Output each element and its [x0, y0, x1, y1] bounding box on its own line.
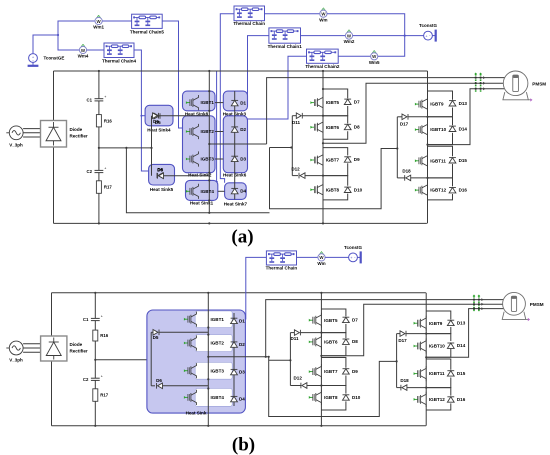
transistor IGBT3 b: [184, 363, 197, 378]
diode D17 b: [397, 333, 400, 335]
svg-text:Thermal Chain4: Thermal Chain4: [102, 59, 137, 64]
svg-text:IGBT3: IGBT3: [201, 157, 215, 162]
node thermal junction A: [57, 34, 59, 36]
svg-text:D16: D16: [457, 397, 466, 402]
wire leg3 rail b: [425, 293, 427, 426]
svg-text:IGBT5: IGBT5: [326, 100, 340, 105]
diode D3: [231, 156, 238, 161]
diode D3 b: [231, 369, 238, 374]
wire 3-phase source to rectifier: [23, 128, 40, 130]
svg-text:IGBT1: IGBT1: [211, 317, 225, 322]
svg-text:Rectifier: Rectifier: [70, 134, 88, 139]
svg-text:D16: D16: [459, 188, 468, 193]
diode D7: [344, 99, 351, 104]
transistor IGBT12: [415, 183, 428, 198]
resistor R16: [96, 115, 112, 127]
node leg3 clamp neutral tap: [396, 147, 398, 149]
green phase markers figure b: [473, 295, 484, 312]
svg-text:D13: D13: [457, 320, 466, 325]
wire D9 loop b: [321, 358, 346, 368]
transistor IGBT7: [310, 152, 323, 167]
svg-text:R17: R17: [104, 185, 112, 190]
wire R16 to mid node: [98, 127, 100, 148]
svg-text:IGBT1: IGBT1: [201, 100, 215, 105]
wire C2 to R17: [98, 173, 100, 181]
diode D14 b: [447, 343, 454, 348]
diode D6 b: [151, 385, 155, 387]
wire leg1 rail b: [207, 293, 209, 426]
svg-text:IGBT10: IGBT10: [429, 344, 445, 349]
wire leg2 output to phase: [323, 83, 505, 143]
wire leg2 clamp chain: [291, 116, 293, 176]
igbt box IGBT3 b: [195, 362, 232, 379]
svg-text:D5: D5: [153, 335, 159, 340]
svg-text:C1: C1: [83, 317, 89, 322]
node leg3 nodes b: [425, 333, 427, 335]
transistor IGBT11: [415, 153, 428, 168]
node thermal port D5: [140, 115, 142, 117]
wire leg2 rail: [322, 71, 324, 223]
svg-text:IGBT2: IGBT2: [211, 341, 225, 346]
svg-text:Thermal Chain: Thermal Chain: [266, 265, 298, 270]
svg-text:Wm2: Wm2: [344, 39, 355, 44]
igbt box IGBT2 b: [195, 335, 232, 352]
wire Thermal Chain left to heat sinks: [220, 14, 234, 183]
wire R17 to bottom b: [94, 401, 96, 426]
wire rectifier to DC- bus: [53, 147, 55, 223]
svg-text:Heat Sink2: Heat Sink2: [188, 173, 212, 178]
wire C1 to R16 b: [94, 321, 96, 331]
svg-text:IGBT9: IGBT9: [430, 102, 444, 107]
svg-text:D17: D17: [398, 338, 407, 343]
transistor IGBT9: [415, 97, 428, 112]
wire D14 loop: [428, 117, 453, 125]
wire D10 loop b: [321, 386, 346, 394]
svg-text:TconstG: TconstG: [419, 23, 437, 28]
transistor IGBT6: [310, 120, 323, 135]
resistor R17 b: [93, 389, 109, 402]
thermal chain block Thermal Chain b: [266, 251, 296, 265]
svg-text:IGBT8: IGBT8: [324, 395, 338, 400]
wire D8 loop: [323, 116, 348, 124]
diode D15 b: [447, 371, 454, 376]
svg-text:Wm4: Wm4: [78, 54, 89, 59]
heat sink block Heat Sink8 with IGBT1: [183, 91, 216, 111]
svg-text:IGBT12: IGBT12: [429, 397, 445, 402]
svg-text:C1: C1: [87, 97, 93, 102]
wire D15 loop: [428, 146, 453, 156]
wire D6 lead to leg1: [164, 175, 210, 177]
wire D14 loop b: [426, 334, 451, 341]
thermal chain block Thermal Chain1: [269, 28, 301, 43]
svg-text:D12: D12: [294, 375, 303, 380]
wire neutral detour to leg3 clamp b: [269, 357, 397, 417]
wire C1 to R16: [98, 101, 100, 115]
wire D5 lead to leg1: [159, 115, 210, 117]
diode D9: [344, 157, 351, 162]
diode D8: [344, 124, 351, 129]
wire Thermal Chain b to Heat Sink: [246, 257, 267, 319]
svg-text:IGBT2: IGBT2: [201, 129, 215, 134]
node DC midpoint: [98, 147, 100, 149]
svg-text:D4: D4: [240, 189, 246, 194]
thermal chain block Thermal Chain: [234, 6, 265, 21]
svg-text:D6: D6: [156, 378, 162, 383]
diode D12 b: [290, 385, 301, 387]
node leg1 rail box ports b: [207, 326, 209, 328]
heat sink block Heat Sink2 with IGBT2 IGBT3: [183, 116, 216, 173]
node bottom bus junctions: [98, 222, 100, 224]
diode D11 b: [290, 332, 294, 334]
diode D7 b: [343, 317, 350, 322]
capacitor C2: [87, 167, 107, 174]
svg-text:(a): (a): [231, 227, 253, 248]
svg-text:Wm: Wm: [319, 17, 327, 22]
wire leg1 output line: [209, 143, 266, 145]
wire Wm2 to TconstG: [353, 35, 424, 37]
wire neutral detour to leg3 clamp: [270, 148, 398, 209]
diode D9 b: [343, 369, 350, 374]
igbt box IGBT4 b: [195, 389, 232, 407]
svg-text:Diode: Diode: [70, 342, 83, 347]
svg-text:Rectifier: Rectifier: [70, 349, 88, 354]
wire Thermal Chain1 to Wm2: [301, 35, 346, 37]
wire leg1 phase to motor b: [266, 300, 504, 357]
wire Thermal Chain to Wm: [265, 13, 320, 15]
svg-text:D7: D7: [354, 99, 360, 104]
svg-text:+: +: [104, 95, 106, 99]
transistor IGBT7 b: [309, 364, 322, 379]
wire left bus lower b: [51, 361, 53, 426]
svg-text:D14: D14: [457, 343, 466, 348]
wire inner bottom connector: [126, 148, 269, 213]
svg-text:Wm1: Wm1: [93, 25, 104, 30]
diode D18 b: [397, 387, 401, 389]
transistor IGBT8: [310, 182, 323, 197]
svg-text:D14: D14: [459, 126, 468, 131]
wire leg1 rail: [208, 71, 210, 213]
node thermal bus junction: [404, 35, 406, 37]
svg-text:Heat Sink1: Heat Sink1: [190, 201, 214, 206]
svg-text:D15: D15: [459, 158, 468, 163]
wire clamp chain b left: [150, 332, 152, 386]
svg-text:D2: D2: [240, 127, 246, 132]
svg-text:PMSM: PMSM: [530, 302, 544, 307]
svg-text:IGBT12: IGBT12: [430, 188, 446, 193]
svg-text:TconstGE: TconstGE: [44, 56, 65, 61]
transistor IGBT1: [186, 95, 199, 110]
thermal chain block Thermal Chain5: [132, 14, 163, 28]
diode rectifier block: [41, 121, 67, 148]
svg-text:R16: R16: [100, 333, 108, 338]
wire leg2 clamp chain b: [289, 333, 291, 386]
wire diode column b: [233, 313, 235, 406]
svg-text:V_3ph: V_3ph: [9, 142, 23, 147]
wire DC- bottom bus: [54, 222, 427, 224]
diode D6: [157, 173, 163, 179]
svg-text:Thermal Chain: Thermal Chain: [233, 21, 265, 26]
svg-text:D17: D17: [400, 121, 409, 126]
wire Thermal Chain1 left to heat sinks: [248, 36, 269, 101]
svg-text:D10: D10: [354, 187, 363, 192]
diode D1 b: [231, 318, 238, 323]
wire D16 loop b: [426, 388, 451, 396]
wire junction to Wm1: [58, 21, 95, 35]
svg-text:IGBT6: IGBT6: [326, 125, 340, 130]
wire C1 branch b: [94, 293, 96, 319]
heat sink block Heat Sink b: [147, 310, 246, 413]
wire D8 loop b: [321, 333, 346, 338]
svg-text:Heat Sink5: Heat Sink5: [150, 187, 174, 192]
sensor Wm b: [317, 251, 325, 266]
voltage source V_3ph b: [6, 341, 23, 362]
wire Thermal Chain2 left to heat sinks: [247, 56, 307, 119]
diode D10: [344, 187, 351, 192]
diode D4 b: [231, 396, 238, 401]
svg-text:C2: C2: [83, 377, 89, 382]
wire leg1 output b: [208, 356, 268, 358]
wire junction to Wm4: [58, 35, 79, 50]
svg-text:IGBT6: IGBT6: [324, 340, 338, 345]
diode D17: [397, 116, 402, 118]
transistor IGBT5 b: [309, 313, 322, 328]
svg-text:+: +: [101, 315, 103, 319]
wire C2 branch: [98, 148, 100, 171]
svg-text:D3: D3: [240, 156, 246, 161]
wire R16 to mid b: [94, 341, 96, 360]
diode D2: [231, 127, 238, 132]
sensor Wm1: [93, 15, 104, 30]
wire D10 loop: [323, 176, 348, 186]
sensor Wm5: [369, 50, 380, 65]
wire neutral stub to leg2 clamp b: [269, 359, 291, 361]
svg-text:R16: R16: [104, 118, 112, 123]
sensor Wm: [319, 8, 327, 23]
svg-text:TconstG: TconstG: [344, 245, 362, 250]
diode D13: [449, 101, 456, 106]
sensor Wm4: [78, 44, 89, 59]
svg-text:IGBT4: IGBT4: [201, 189, 215, 194]
wire D7 loop: [323, 89, 348, 98]
svg-text:IGBT4: IGBT4: [211, 395, 225, 400]
capacitor C2 b: [83, 375, 103, 382]
diode D18: [397, 177, 404, 179]
svg-text:Wm5: Wm5: [369, 60, 380, 65]
heat sink block Heat Sink1 with IGBT4: [186, 180, 218, 200]
thermal chain block Thermal Chain2: [307, 49, 339, 63]
heat sink block Heat Sink5: [149, 164, 175, 185]
transistor IGBT2 b: [184, 335, 197, 350]
diode D4: [231, 188, 238, 193]
wire C1 branch: [98, 71, 100, 99]
svg-text:V_3ph: V_3ph: [9, 358, 23, 363]
svg-text:+: +: [101, 375, 103, 379]
wire Wm1 to Thermal Chain5: [102, 20, 131, 22]
node leg2 igbt5 nodes: [322, 88, 324, 90]
transistor IGBT6 b: [309, 334, 322, 349]
wire neutral stub to leg2 clamp: [270, 147, 293, 149]
wire igbt-diode row stubs: [215, 102, 223, 104]
wire Thermal Chain5 to heat sinks: [162, 21, 182, 128]
wire D7 loop b: [321, 309, 346, 316]
wire Thermal Chain b to Wm b: [297, 256, 318, 258]
svg-text:D15: D15: [457, 371, 466, 376]
svg-text:IGBT9: IGBT9: [429, 321, 443, 326]
svg-text:D8: D8: [354, 125, 360, 130]
svg-text:PMSM: PMSM: [532, 81, 546, 86]
svg-text:D11: D11: [290, 336, 299, 341]
svg-text:D2: D2: [239, 342, 245, 347]
wire thermal stub to Heat Sink4: [141, 115, 145, 117]
svg-text:Heat Sink: Heat Sink: [186, 411, 207, 416]
wire clamp chain D5 D6: [151, 116, 153, 176]
wire source to rectifier b: [23, 343, 40, 345]
svg-text:D6: D6: [157, 167, 163, 172]
wire leg3 clamp chain: [396, 117, 398, 178]
svg-text:D11: D11: [292, 120, 301, 125]
diode D15: [449, 158, 456, 163]
node leg3 clamp neutral tap b: [396, 360, 398, 362]
heat sink block Heat Sink4: [145, 105, 173, 126]
capacitor C1: [87, 95, 107, 102]
wire leg3 clamp chain b: [396, 334, 398, 388]
transistor IGBT10 b: [414, 338, 427, 353]
svg-text:D1: D1: [240, 101, 246, 106]
node leg1 rail block ports: [208, 90, 210, 92]
motor PMSM figure b: [502, 292, 544, 321]
svg-text:C2: C2: [87, 169, 93, 174]
sensor Wm2: [344, 30, 355, 45]
svg-text:D10: D10: [352, 395, 361, 400]
svg-text:IGBT7: IGBT7: [324, 369, 338, 374]
wire TconstGE to junction: [33, 35, 58, 53]
svg-text:D18: D18: [402, 168, 411, 173]
transistor IGBT10: [415, 122, 428, 137]
wire Thermal Chain4 to Heat Sink4: [134, 50, 149, 171]
diode D14: [449, 126, 456, 131]
wire DC- bottom bus b: [52, 425, 426, 427]
node bottom bus junctions b: [94, 425, 96, 427]
node leg3 nodes: [426, 116, 428, 118]
wire leg2 output b: [321, 304, 502, 356]
diode D11: [292, 115, 296, 117]
wire leg3 output to phase: [428, 89, 505, 145]
svg-text:Thermal Chain1: Thermal Chain1: [268, 44, 303, 49]
svg-text:+: +: [104, 167, 106, 171]
node leg1 output junctions b: [207, 356, 209, 358]
svg-text:D9: D9: [352, 369, 358, 374]
wire C2 to R17 b: [94, 380, 96, 388]
transistor IGBT5: [310, 95, 323, 110]
svg-text:Thermal Chain5: Thermal Chain5: [130, 30, 165, 35]
capacitor C1 b: [83, 315, 103, 322]
motor PMSM figure a: [503, 71, 546, 102]
transistor IGBT8 b: [309, 390, 322, 405]
wire DC+ top bus: [54, 70, 428, 72]
transistor IGBT3: [186, 151, 199, 166]
svg-text:IGBT11: IGBT11: [429, 371, 445, 376]
diode rectifier block b: [41, 336, 67, 361]
diode D16: [449, 188, 456, 193]
diode D5: [154, 113, 160, 119]
wire D16 loop: [428, 178, 453, 186]
svg-text:IGBT5: IGBT5: [324, 318, 338, 323]
transistor IGBT4 b: [184, 390, 197, 405]
wire leg3 rail: [427, 71, 429, 223]
node inner bottom junction: [208, 212, 210, 214]
wire D13 loop b: [426, 311, 451, 319]
diode D5 b: [151, 331, 153, 333]
svg-text:D13: D13: [459, 101, 468, 106]
node leg2 mid node: [322, 142, 324, 144]
wire D13 loop: [428, 91, 453, 100]
wire diode column leg1: [234, 91, 236, 199]
svg-text:R17: R17: [100, 393, 108, 398]
wire D15 loop b: [426, 359, 451, 370]
svg-text:(b): (b): [232, 435, 255, 455]
diode D2 b: [231, 342, 238, 347]
svg-text:D3: D3: [239, 370, 245, 375]
node clamp neutral junction: [150, 147, 152, 149]
igbt box IGBT1 b: [195, 311, 232, 328]
node top bus junctions b: [94, 292, 96, 294]
diode D12: [292, 175, 298, 177]
wire left bus b: [51, 293, 53, 336]
svg-text:D8: D8: [352, 339, 358, 344]
wire D9 loop: [323, 148, 348, 156]
node neutral junction: [125, 147, 127, 149]
heat sink block Heat Sink3 with D1: [223, 91, 247, 111]
diode D10 b: [343, 395, 350, 400]
wire R17 to DC- bus: [98, 193, 100, 223]
diode D6 in Heat Sink5: [158, 173, 164, 179]
svg-text:D5: D5: [155, 120, 161, 125]
wire Wm4 to Thermal Chain4: [87, 49, 104, 51]
svg-text:Heat Sink7: Heat Sink7: [224, 201, 248, 206]
diode D8 b: [343, 339, 350, 344]
svg-text:D12: D12: [291, 167, 300, 172]
transistor IGBT11 b: [414, 366, 427, 381]
voltage source V_3ph: [6, 126, 23, 147]
svg-text:IGBT8: IGBT8: [326, 187, 340, 192]
svg-text:D4: D4: [239, 397, 245, 402]
resistor R16 b: [93, 330, 109, 341]
svg-text:Wm: Wm: [317, 261, 325, 266]
svg-text:Thermal Chain2: Thermal Chain2: [305, 64, 340, 69]
diode D16 b: [447, 397, 454, 402]
wire DC+ top bus b: [52, 292, 426, 294]
wire Wm to bus: [327, 14, 405, 36]
thermal source TconstG b: [344, 245, 362, 264]
svg-text:IGBT3: IGBT3: [211, 368, 225, 373]
green phase markers figure a: [474, 73, 485, 93]
wire Wm b to TconstG b: [325, 256, 349, 258]
wire C2 branch b: [94, 360, 96, 378]
diode D1: [231, 100, 238, 105]
node leg2 clamp neutral tap b: [289, 359, 291, 361]
wire neutral rail b: [95, 359, 151, 361]
wire neutral rail: [99, 116, 152, 148]
node output junction: [208, 143, 210, 145]
transistor IGBT2: [186, 124, 199, 139]
heat sink block Heat Sink7 with D4: [225, 183, 247, 200]
diode D13 b: [447, 320, 454, 325]
node top bus junctions: [98, 70, 100, 72]
svg-text:IGBT10: IGBT10: [430, 127, 446, 132]
svg-text:Diode: Diode: [70, 127, 83, 132]
node leg2 clamp neutral tap: [290, 146, 292, 148]
transistor IGBT1 b: [184, 312, 197, 327]
